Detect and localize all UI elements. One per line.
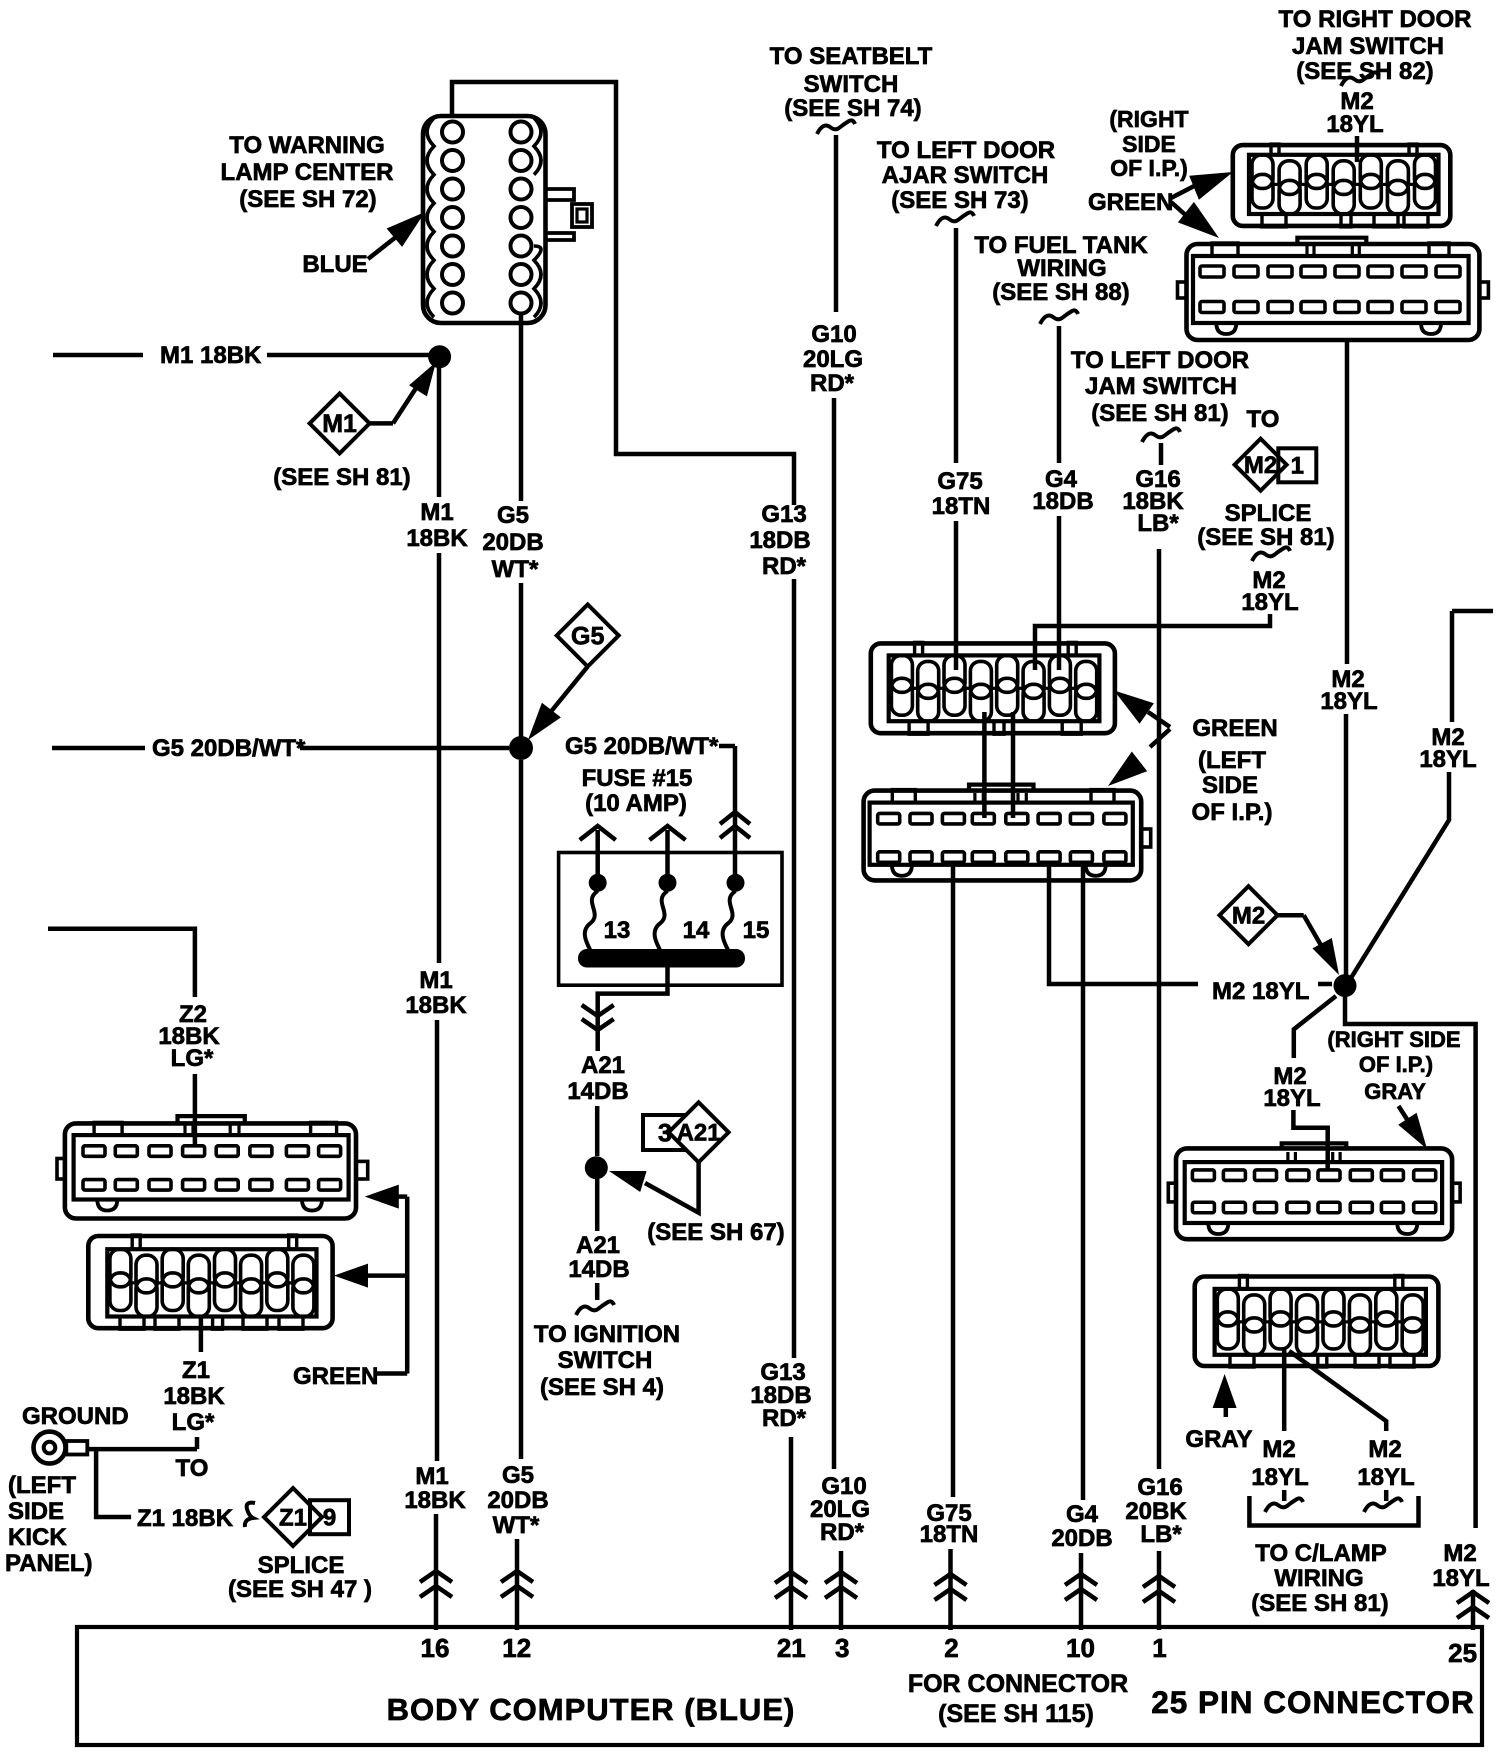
wires from connector I to M2 labels (1282, 1349, 1287, 1431)
off-page chevrons pin 1 (1143, 1576, 1175, 1587)
svg-text:(SEE SH 81): (SEE SH 81) (1197, 524, 1334, 551)
svg-text:M2: M2 (1244, 452, 1277, 479)
off-page chevrons pin 2 (935, 1574, 967, 1585)
svg-text:18YL: 18YL (1241, 589, 1298, 616)
wire M2 18YL from E to junction dot (1049, 864, 1198, 984)
svg-text:SIDE: SIDE (1202, 772, 1258, 799)
svg-text:WIRING: WIRING (1017, 255, 1106, 282)
svg-text:(10 AMP): (10 AMP) (585, 790, 687, 817)
svg-text:(SEE SH 73): (SEE SH 73) (891, 187, 1028, 214)
svg-text:SIDE: SIDE (1122, 131, 1176, 157)
connector C: 16-pin rect (right side IP) (1187, 244, 1480, 340)
wire M2 to connector B (1341, 72, 1379, 86)
svg-text:18YL: 18YL (1251, 1464, 1308, 1491)
connector I: scallop 16-pin (GRAY) (1195, 1277, 1439, 1367)
svg-text:14DB: 14DB (567, 1078, 628, 1105)
svg-text:FUSE #15: FUSE #15 (582, 765, 693, 792)
svg-text:25 PIN CONNECTOR: 25 PIN CONNECTOR (1151, 1684, 1474, 1720)
svg-text:1: 1 (1152, 1633, 1166, 1663)
svg-text:M1: M1 (420, 499, 453, 526)
off-page chevrons pin 10 (1065, 1574, 1097, 1585)
svg-text:15: 15 (743, 917, 770, 944)
svg-text:M2: M2 (1368, 1436, 1401, 1463)
svg-text:RD*: RD* (762, 1405, 807, 1432)
wire A21 from bus bar (598, 967, 668, 1051)
svg-text:(SEE SH 81): (SEE SH 81) (273, 464, 410, 491)
junction dot G5 (509, 736, 533, 760)
svg-text:TO IGNITION: TO IGNITION (534, 1321, 680, 1348)
off-page chevrons pin 25 (1457, 1592, 1489, 1603)
svg-text:RD*: RD* (762, 553, 807, 580)
svg-text:3: 3 (835, 1633, 849, 1663)
diamond M1 (SEE SH 81) (310, 393, 370, 453)
svg-text:BLUE: BLUE (302, 251, 367, 278)
svg-text:M1: M1 (415, 1463, 448, 1490)
junction dot M2 (1334, 974, 1357, 997)
svg-text:18BK: 18BK (405, 992, 467, 1019)
svg-text:G16: G16 (1137, 1474, 1182, 1501)
svg-text:TO WARNING: TO WARNING (229, 132, 385, 159)
svg-text:WT*: WT* (493, 1512, 540, 1539)
svg-text:BODY COMPUTER (BLUE): BODY COMPUTER (BLUE) (387, 1692, 796, 1727)
gray arrow up to connector I (1213, 1374, 1237, 1408)
svg-text:M2 18YL: M2 18YL (1212, 978, 1309, 1005)
svg-text:M1 18BK: M1 18BK (160, 342, 262, 369)
diamond A21 with 3-box, arrow to junction (643, 1115, 687, 1150)
svg-text:18DB: 18DB (749, 527, 810, 554)
svg-text:SPLICE: SPLICE (258, 1552, 345, 1579)
svg-text:JAM SWITCH: JAM SWITCH (1085, 373, 1237, 400)
svg-text:JAM SWITCH: JAM SWITCH (1292, 33, 1444, 60)
svg-text:M1: M1 (419, 967, 452, 994)
wire Z2 top-left (48, 929, 195, 997)
body computer box (77, 1627, 1482, 1745)
svg-text:TO: TO (1247, 406, 1280, 433)
svg-text:9: 9 (323, 1505, 336, 1532)
svg-text:14: 14 (683, 917, 710, 944)
wire G10 (817, 120, 855, 134)
svg-text:G10: G10 (811, 321, 856, 348)
svg-text:SPLICE: SPLICE (1225, 500, 1312, 527)
svg-text:A21: A21 (581, 1052, 625, 1079)
svg-text:GREEN: GREEN (1088, 189, 1173, 216)
diamond M2 with arrow to dot (1220, 886, 1278, 944)
svg-text:G5: G5 (502, 1462, 534, 1489)
svg-text:AJAR SWITCH: AJAR SWITCH (882, 162, 1049, 189)
wire: G13 from connector A top (452, 82, 794, 505)
svg-text:SWITCH: SWITCH (804, 71, 899, 98)
wire G5 vertical (519, 313, 524, 501)
svg-text:13: 13 (604, 917, 631, 944)
svg-text:SWITCH: SWITCH (558, 1347, 653, 1374)
wire M2 from connector C down (1345, 340, 1350, 664)
svg-text:10: 10 (1066, 1633, 1095, 1663)
svg-text:18BK: 18BK (406, 525, 468, 552)
green arrows to connectors B and C (1171, 183, 1200, 198)
wire G13 vertical (792, 579, 797, 1358)
svg-text:18DB: 18DB (1032, 488, 1093, 515)
svg-text:WT*: WT* (492, 556, 539, 583)
svg-text:(SEE SH 4): (SEE SH 4) (540, 1374, 664, 1401)
wire G4 (1040, 310, 1078, 324)
svg-text:(SEE SH 67): (SEE SH 67) (647, 1219, 784, 1246)
svg-text:TO LEFT DOOR: TO LEFT DOOR (877, 137, 1055, 164)
wire G5 horizontal + labels (52, 746, 145, 751)
svg-text:G5 20DB/WT*: G5 20DB/WT* (565, 733, 719, 760)
svg-text:18BK: 18BK (404, 1487, 466, 1514)
svg-text:18YL: 18YL (1357, 1464, 1414, 1491)
fuse arrows up (13,14) (595, 830, 600, 874)
svg-text:(SEE SH 81): (SEE SH 81) (1251, 1590, 1388, 1617)
svg-text:20DB: 20DB (1051, 1525, 1112, 1552)
svg-text:TO: TO (176, 1455, 209, 1482)
svg-text:A21: A21 (576, 1232, 620, 1259)
svg-text:LB*: LB* (1137, 510, 1179, 537)
svg-text:18TN: 18TN (920, 1521, 979, 1548)
svg-text:RD*: RD* (810, 370, 855, 397)
svg-text:GRAY: GRAY (1185, 1426, 1252, 1453)
svg-text:G5: G5 (497, 502, 529, 529)
svg-text:GROUND: GROUND (22, 1403, 129, 1430)
ground wires (88, 1447, 197, 1452)
svg-text:TO C/LAMP: TO C/LAMP (1255, 1540, 1387, 1567)
wire Z1 from connector G (199, 1317, 204, 1353)
connector: warning lamp center (BLUE) 14-pin (423, 116, 592, 323)
svg-text:KICK: KICK (8, 1524, 67, 1551)
double chevron down (582, 1005, 614, 1016)
double chevron fuse slot 15 (720, 812, 750, 824)
svg-text:RD*: RD* (820, 1519, 865, 1546)
svg-text:TO LEFT DOOR: TO LEFT DOOR (1071, 347, 1249, 374)
svg-text:A21: A21 (677, 1120, 721, 1147)
wire G16 (1142, 428, 1180, 442)
svg-text:18YL: 18YL (1326, 111, 1383, 138)
svg-text:WIRING: WIRING (1274, 1565, 1363, 1592)
svg-text:M2: M2 (1232, 903, 1265, 930)
svg-text:18YL: 18YL (1432, 1565, 1489, 1592)
svg-text:20DB: 20DB (487, 1487, 548, 1514)
svg-text:TO RIGHT DOOR: TO RIGHT DOOR (1279, 6, 1472, 33)
svg-text:OF I.P.): OF I.P.) (1359, 1052, 1433, 1077)
svg-text:18YL: 18YL (1419, 746, 1476, 773)
svg-text:LG*: LG* (172, 1409, 215, 1436)
connector G: scallop 16-pin (bottom left GREEN) (88, 1236, 332, 1328)
junction dot A21 (585, 1156, 608, 1179)
connector E: 16-pin rect (left side IP) (864, 791, 1142, 881)
svg-text:2: 2 (944, 1633, 958, 1663)
wire M1 vertical (437, 368, 442, 497)
svg-text:FOR CONNECTOR: FOR CONNECTOR (908, 1670, 1128, 1698)
bus bar (578, 949, 745, 968)
svg-text:M2: M2 (1262, 1436, 1295, 1463)
svg-text:GREEN: GREEN (293, 1363, 378, 1390)
svg-text:Z1 18BK: Z1 18BK (137, 1505, 234, 1532)
svg-text:(RIGHT SIDE: (RIGHT SIDE (1327, 1027, 1460, 1052)
svg-text:18BK: 18BK (163, 1383, 225, 1410)
connector D: scallop 16-pin (GREEN left side IP) (871, 643, 1115, 733)
svg-text:GREEN: GREEN (1192, 715, 1277, 742)
wire from dot to connector H (1294, 996, 1336, 1058)
svg-text:25: 25 (1448, 1638, 1477, 1668)
svg-text:OF I.P.): OF I.P.) (1192, 799, 1273, 826)
svg-text:14DB: 14DB (568, 1256, 629, 1283)
svg-text:(LEFT: (LEFT (8, 1472, 76, 1499)
svg-text:(SEE SH 115): (SEE SH 115) (938, 1700, 1094, 1728)
svg-text:(SEE SH 88): (SEE SH 88) (992, 279, 1129, 306)
svg-text:G5 20DB/WT*: G5 20DB/WT* (152, 735, 306, 762)
svg-text:Z1: Z1 (279, 1505, 307, 1532)
svg-text:16: 16 (421, 1633, 450, 1663)
svg-text:GRAY: GRAY (1364, 1079, 1426, 1104)
wire G13 to pin 21 (789, 1437, 794, 1630)
fuse box (559, 826, 782, 985)
svg-text:20LG: 20LG (803, 346, 863, 373)
svg-text:18YL: 18YL (1263, 1085, 1320, 1112)
svg-text:LAMP CENTER: LAMP CENTER (221, 159, 394, 186)
svg-text:TO SEATBELT: TO SEATBELT (770, 43, 933, 70)
wire M2 right branch: corner at top right (1452, 609, 1493, 614)
svg-text:SIDE: SIDE (8, 1498, 64, 1525)
svg-text:(LEFT: (LEFT (1198, 747, 1266, 774)
connector F: 16-pin rect (bottom left) (65, 1123, 356, 1218)
connector H: 16-pin rect (GRAY right side IP) (1176, 1148, 1452, 1239)
svg-text:G4: G4 (1066, 1501, 1099, 1528)
wire from splice label to connector D (1035, 614, 1270, 670)
arrows into F and G with GREEN label (365, 1185, 399, 1209)
wire M1 horizontal + label (53, 353, 143, 358)
svg-text:(SEE SH 72): (SEE SH 72) (239, 186, 376, 213)
svg-text:G5: G5 (571, 622, 604, 650)
svg-text:M2: M2 (1443, 1540, 1476, 1567)
svg-text:(SEE SH 81): (SEE SH 81) (1091, 400, 1228, 427)
svg-text:G75: G75 (937, 468, 982, 495)
bracket under M2 wires (1249, 1496, 1418, 1526)
svg-text:LG*: LG* (171, 1045, 214, 1072)
svg-text:M1: M1 (322, 410, 357, 438)
svg-text:20DB: 20DB (482, 529, 543, 556)
off-page chevrons pin 16 (420, 1571, 452, 1582)
svg-text:21: 21 (777, 1633, 806, 1663)
junction dot M1 (428, 345, 451, 368)
off-page chevrons pin 21 (775, 1572, 807, 1583)
svg-text:LB*: LB* (1140, 1521, 1182, 1548)
svg-text:G13: G13 (761, 501, 806, 528)
svg-text:12: 12 (502, 1633, 531, 1663)
wire from dot down right to pin 25 (1345, 997, 1476, 1528)
wire G75 (936, 212, 974, 226)
off-page chevrons pin 3 (825, 1572, 857, 1583)
svg-text:1: 1 (1291, 453, 1304, 480)
svg-text:Z1: Z1 (182, 1357, 210, 1384)
wires D to E (982, 712, 987, 818)
svg-text:OF I.P.): OF I.P.) (1110, 155, 1188, 181)
break curl (576, 1301, 614, 1315)
diamond G5 with arrow to junction (557, 605, 619, 667)
svg-text:(RIGHT: (RIGHT (1109, 106, 1188, 132)
green arrows to connectors D and E (1148, 712, 1170, 727)
off-page chevrons pin 12 (501, 1571, 533, 1582)
connector B: right door jam (GREEN right side of IP) (1233, 145, 1451, 226)
svg-text:18YL: 18YL (1320, 688, 1377, 715)
svg-text:PANEL): PANEL) (5, 1550, 93, 1577)
svg-text:(SEE SH 74): (SEE SH 74) (784, 95, 921, 122)
svg-text:(SEE SH 47 ): (SEE SH 47 ) (228, 1576, 372, 1603)
svg-text:18TN: 18TN (932, 493, 991, 520)
